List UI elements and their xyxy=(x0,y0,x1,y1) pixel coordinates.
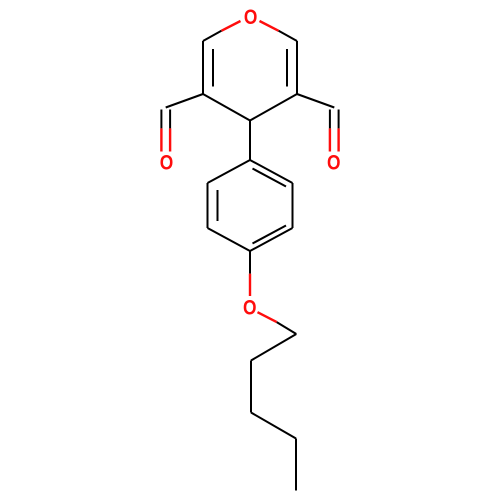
bond O1-C2 red half xyxy=(221,21,240,31)
chain bond C1-C2 xyxy=(251,334,296,361)
bond O-CH2 red half xyxy=(258,312,277,322)
left aldehyde C=O line1 red half xyxy=(160,128,162,151)
right aldehyde C=O line1 black half xyxy=(329,110,331,129)
bond C4'-O red half xyxy=(249,274,251,296)
bond O1-C6 black half xyxy=(279,31,297,41)
bond C2=C3 inner xyxy=(212,49,214,87)
chain bond C3-C4 xyxy=(251,413,296,439)
bond O-CH2 black half xyxy=(277,322,297,334)
benzene edge C6'-C1' xyxy=(250,160,293,183)
bond C4'-O black half xyxy=(249,251,251,274)
bond C3-C4 xyxy=(203,94,250,121)
svg-text:O: O xyxy=(160,151,174,175)
benzene edge C2'-C3' xyxy=(207,183,209,228)
benzene edge C4'-C5' xyxy=(250,228,293,251)
benzene edge C3'-C4' xyxy=(208,228,251,251)
bond C4-C1' xyxy=(249,121,251,161)
chain bond C2-C3 xyxy=(250,361,252,413)
bond C3-CHO left xyxy=(166,94,203,108)
bond C5-CHO right xyxy=(297,94,334,108)
bond C6=C5 inner xyxy=(286,49,288,87)
right aldehyde C=O line2 black half xyxy=(338,110,340,129)
left aldehyde C=O line2 black half xyxy=(169,110,171,129)
svg-text:O: O xyxy=(244,5,258,29)
bond O1-C2 black half xyxy=(203,31,221,41)
left aldehyde C=O line2 red half xyxy=(169,128,171,151)
svg-text:O: O xyxy=(327,151,341,175)
bond C5-C4 xyxy=(250,94,297,121)
svg-text:O: O xyxy=(243,296,257,320)
benzene edge C5'-C6' xyxy=(292,183,294,228)
left aldehyde C=O line1 black half xyxy=(160,110,162,129)
benzene C4'=C5' inner xyxy=(253,226,287,244)
right aldehyde C=O line1 red half xyxy=(329,128,331,151)
benzene C2'=C3' inner xyxy=(217,190,219,221)
benzene C6'=C1' inner xyxy=(253,169,287,187)
chain bond C4-C5 xyxy=(295,439,297,491)
right aldehyde C=O line2 red half xyxy=(337,128,339,151)
bond C2=C3 main xyxy=(202,41,204,94)
benzene edge C1'-C2' xyxy=(208,160,251,183)
bond C6=C5 main xyxy=(296,41,298,94)
bond O1-C6 red half xyxy=(260,21,279,31)
